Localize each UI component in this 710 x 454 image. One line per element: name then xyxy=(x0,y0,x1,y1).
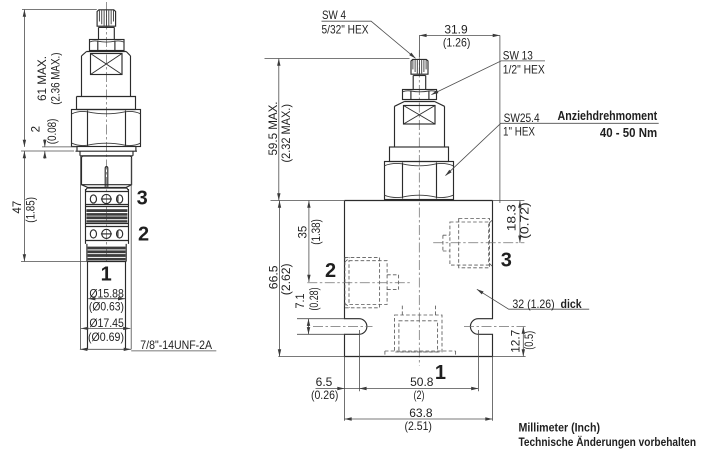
svg-text:(1.38): (1.38) xyxy=(311,219,323,245)
torque note xyxy=(558,108,658,140)
svg-text:(2): (2) xyxy=(414,388,425,402)
port 3 axis xyxy=(433,242,524,244)
svg-text:(0.26): (0.26) xyxy=(311,388,339,402)
port 2 cavity dashed xyxy=(345,257,399,307)
svg-text:47: 47 xyxy=(12,201,24,214)
dim 18.3 line xyxy=(518,201,521,243)
extension block bottom right xyxy=(493,356,526,358)
slot edge extensions left xyxy=(297,319,345,335)
svg-text:(2.32 MAX.): (2.32 MAX.) xyxy=(279,104,293,163)
svg-text:Ø17.45: Ø17.45 xyxy=(89,316,124,330)
dim line d17.45 xyxy=(81,327,130,330)
port label 2 left view xyxy=(138,223,149,245)
svg-text:(Ø0.63): (Ø0.63) xyxy=(89,299,124,313)
dim 66.5 line xyxy=(278,201,281,357)
right flange xyxy=(390,147,449,162)
dim 6.5 and 50.8 line xyxy=(316,387,479,390)
svg-text:1/2" HEX: 1/2" HEX xyxy=(503,63,545,77)
svg-text:(Ø0.69): (Ø0.69) xyxy=(88,330,124,344)
footer note xyxy=(519,421,697,449)
port 2 holes xyxy=(90,229,122,238)
label SW 13 xyxy=(430,48,545,96)
svg-text:2: 2 xyxy=(325,260,336,282)
right valve upper body xyxy=(395,102,445,148)
port label 3 left view xyxy=(137,188,148,210)
svg-text:3: 3 xyxy=(137,188,148,210)
diameter text 17.45 xyxy=(89,316,124,330)
dim 18.3 text xyxy=(507,202,532,239)
port label 3 right view xyxy=(501,249,512,271)
svg-text:2: 2 xyxy=(138,223,149,245)
label SW25.4 xyxy=(444,111,659,177)
upper sleeve with slot xyxy=(82,156,132,188)
flange xyxy=(77,97,136,110)
port 2 axis xyxy=(307,282,411,284)
svg-text:6.5: 6.5 xyxy=(316,375,333,389)
extension lines thread diameter xyxy=(81,155,132,349)
extension line 47 bottom xyxy=(21,261,87,263)
svg-text:5/32" HEX: 5/32" HEX xyxy=(322,23,369,37)
dim 47 line xyxy=(23,151,26,262)
dim 12.7 text xyxy=(510,330,536,353)
adjustment seal box with X xyxy=(91,54,123,75)
svg-text:1: 1 xyxy=(435,362,446,384)
block outline xyxy=(345,201,493,357)
svg-text:59.5 MAX.: 59.5 MAX. xyxy=(266,102,280,156)
thread band upper xyxy=(86,209,127,222)
svg-text:7.1: 7.1 xyxy=(295,294,307,309)
extension screw top right xyxy=(265,58,410,60)
right screw stem xyxy=(413,76,426,90)
left slot centerline xyxy=(313,326,373,328)
svg-text:7/8"-14UNF-2A: 7/8"-14UNF-2A xyxy=(140,338,212,352)
svg-text:(2.36 MAX.): (2.36 MAX.) xyxy=(49,53,63,105)
svg-text:SW25.4: SW25.4 xyxy=(504,111,540,125)
svg-text:35: 35 xyxy=(298,226,310,239)
washer step 1 xyxy=(76,147,138,151)
dim 50.8 text xyxy=(410,375,434,402)
valve body mid xyxy=(86,188,129,244)
dim 59.5 MAX text xyxy=(266,102,293,163)
svg-text:(0.08): (0.08) xyxy=(47,118,59,144)
port label 1 right view xyxy=(435,362,446,384)
svg-text:(2.62): (2.62) xyxy=(281,263,293,295)
extension block top right xyxy=(493,200,525,202)
svg-text:32 (1.26) dick: 32 (1.26) dick xyxy=(512,297,582,311)
bottom thread dim line xyxy=(80,348,131,351)
diameter text 15.88 xyxy=(89,286,124,300)
dim 6.5 text xyxy=(311,375,339,402)
right adjustment seal box with X xyxy=(404,106,436,125)
dim line d15.88 xyxy=(88,297,125,300)
dim 61 MAX line xyxy=(23,10,26,147)
right adjustment screw knurled head xyxy=(411,59,428,75)
thread spec leader xyxy=(131,350,216,352)
svg-text:50.8: 50.8 xyxy=(410,375,434,389)
extension line screw top xyxy=(22,9,97,11)
dim 12.7 line xyxy=(522,327,525,357)
svg-text:2: 2 xyxy=(31,126,43,132)
svg-text:(0.5): (0.5) xyxy=(524,331,536,350)
wall thickness leader xyxy=(476,288,590,310)
extension block top left xyxy=(271,200,345,202)
centerline right valve xyxy=(418,50,420,366)
thread spec text xyxy=(140,338,212,352)
port label 2 right view xyxy=(325,260,336,282)
thread band lower xyxy=(87,244,126,262)
label SW 4 xyxy=(322,8,417,60)
adjustment screw knurled head xyxy=(97,10,116,28)
svg-text:(2.51): (2.51) xyxy=(404,419,432,433)
screw stem xyxy=(99,27,115,39)
valve upper body xyxy=(82,52,131,97)
centerline left valve xyxy=(105,2,107,262)
dim 59.5 MAX line xyxy=(277,59,280,201)
dim 35 line xyxy=(307,201,310,283)
svg-text:61 MAX.: 61 MAX. xyxy=(35,56,49,101)
extension lines bottom dims xyxy=(345,330,493,421)
extension lines 2mm xyxy=(21,147,77,151)
svg-text:40 - 50 Nm: 40 - 50 Nm xyxy=(600,125,657,140)
lock nut small hex xyxy=(90,40,125,51)
right slot centerline xyxy=(464,326,526,328)
svg-text:31.9: 31.9 xyxy=(444,22,468,36)
svg-text:Technische Änderungen vorbehal: Technische Änderungen vorbehalten xyxy=(519,434,697,449)
port 1 cavity dashed xyxy=(385,304,456,357)
diameter text 0.69 xyxy=(88,330,124,344)
dim 7.1 arrows xyxy=(307,319,310,335)
dim 47 text xyxy=(12,197,37,223)
svg-text:(0.72): (0.72) xyxy=(519,202,531,239)
svg-text:Anziehdrehmoment: Anziehdrehmoment xyxy=(558,108,658,123)
svg-text:Millimeter (Inch): Millimeter (Inch) xyxy=(519,421,601,435)
dim 63.8 line xyxy=(345,417,493,420)
dim 35 text xyxy=(298,219,323,245)
svg-text:(0.28): (0.28) xyxy=(309,287,321,310)
dim 2mm text xyxy=(31,118,59,144)
svg-text:12.7: 12.7 xyxy=(510,330,522,353)
port 3 holes xyxy=(90,194,122,203)
dim 66.5 text xyxy=(268,263,293,295)
svg-text:3: 3 xyxy=(501,249,512,271)
dim 2mm arrows xyxy=(43,139,46,159)
valve body lower xyxy=(88,262,126,350)
dim 63.8 text xyxy=(404,406,432,433)
svg-text:SW 4: SW 4 xyxy=(322,8,346,22)
right hex nut 1in xyxy=(384,162,453,200)
svg-text:(1.26): (1.26) xyxy=(443,36,471,50)
dim 31.9 line xyxy=(419,34,500,37)
svg-text:1" HEX: 1" HEX xyxy=(503,125,535,139)
svg-text:63.8: 63.8 xyxy=(409,406,433,420)
dim 7.1 text xyxy=(295,287,321,310)
extension block bottom left xyxy=(278,356,344,358)
dim 61 MAX text xyxy=(35,53,63,105)
hex nut 1in xyxy=(72,110,141,147)
port 3 cavity dashed xyxy=(443,219,493,268)
right lock nut small hex xyxy=(403,90,437,100)
svg-text:66.5: 66.5 xyxy=(268,265,280,289)
svg-text:18.3: 18.3 xyxy=(507,204,519,231)
svg-text:1: 1 xyxy=(101,264,112,286)
port label 1 left view xyxy=(101,264,112,286)
svg-text:(1.85): (1.85) xyxy=(25,197,37,223)
diameter text 0.63 xyxy=(89,299,124,313)
dim 31.9 text xyxy=(443,22,471,49)
svg-text:SW 13: SW 13 xyxy=(503,48,533,62)
dim 31.9 extension lines xyxy=(419,35,500,203)
wall thickness text xyxy=(512,297,582,311)
washer step 2 xyxy=(80,151,133,156)
